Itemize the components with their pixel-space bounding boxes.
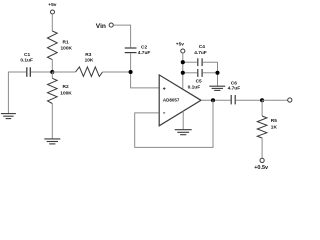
resistor R2 — [51, 72, 53, 78]
wire +5v supply to op-amp V+ — [182, 53, 184, 88]
wire output to C6 — [201, 99, 231, 101]
svg-text:+5v: +5v — [176, 42, 184, 48]
op-amp U1 AD8057 — [159, 75, 201, 126]
terminal +0.5v — [260, 158, 264, 162]
wire Vin to C2 — [113, 25, 130, 47]
node A junction — [50, 70, 54, 74]
ground left — [1, 114, 16, 119]
wire bottom rail left — [183, 72, 197, 74]
junction decoupling right — [215, 71, 219, 75]
junction +5v bottom rail — [181, 71, 185, 75]
svg-text:100K: 100K — [60, 91, 72, 97]
ground R2 — [44, 139, 60, 144]
ground decoupling — [209, 86, 225, 90]
wire left to C1 — [8, 72, 26, 114]
svg-text:C5: C5 — [196, 79, 202, 85]
wire R3 to node B — [103, 71, 131, 73]
wire bottom rail right — [203, 72, 218, 74]
wire C6 to node C — [236, 99, 262, 101]
node output junction — [211, 98, 215, 102]
terminal Vin — [109, 23, 113, 27]
wire C2 to node B and op-amp +in — [131, 53, 159, 88]
node B junction — [129, 70, 133, 74]
wire op-amp V- to ground — [182, 111, 184, 130]
svg-text:R3: R3 — [85, 52, 91, 58]
terminal +5v left — [51, 10, 55, 14]
svg-text:10K: 10K — [85, 57, 94, 63]
svg-text:4.7uF: 4.7uF — [194, 50, 207, 56]
junction +5v top rail — [181, 60, 185, 64]
svg-text:C4: C4 — [199, 44, 205, 50]
resistor R1 — [47, 31, 57, 60]
svg-text:4.7uF: 4.7uF — [138, 50, 151, 56]
wire C1 to node A — [31, 71, 52, 73]
svg-text:+0.5v: +0.5v — [254, 165, 269, 171]
svg-text:R5: R5 — [271, 118, 277, 124]
terminal output — [288, 98, 292, 102]
node C junction — [260, 98, 264, 102]
wire node C to R5 — [261, 100, 263, 116]
svg-text:C2: C2 — [141, 44, 147, 50]
wire node C to output terminal — [262, 99, 288, 101]
pin - — [163, 112, 165, 114]
svg-text:R1: R1 — [63, 40, 69, 46]
wire top rail right — [203, 62, 218, 86]
wire R2 to ground — [51, 104, 53, 139]
svg-text:0.1uF: 0.1uF — [20, 58, 33, 64]
svg-text:0.1uF: 0.1uF — [188, 84, 201, 90]
svg-text:100K: 100K — [61, 45, 73, 51]
svg-text:1K: 1K — [271, 124, 278, 130]
svg-text:4.7uF: 4.7uF — [228, 85, 241, 91]
terminal +5v right — [181, 49, 185, 53]
svg-text:R2: R2 — [63, 84, 69, 90]
wire +5v to R1 — [51, 14, 53, 31]
svg-text:AD8057: AD8057 — [163, 98, 180, 103]
capacitor C2 — [125, 47, 137, 49]
ground op-amp — [175, 130, 192, 135]
capacitor C5 — [197, 69, 199, 77]
resistor R5 — [257, 116, 267, 138]
svg-text:Vin: Vin — [96, 23, 106, 30]
wire R5 to bias terminal — [261, 138, 263, 158]
svg-text:+5v: +5v — [48, 2, 56, 8]
svg-text:C1: C1 — [24, 52, 30, 58]
wire top rail left — [183, 61, 197, 63]
wire R1 to node A — [51, 60, 53, 72]
pin + — [163, 87, 166, 90]
wire feedback loop — [135, 100, 213, 147]
wire node A to R3 — [52, 71, 75, 73]
